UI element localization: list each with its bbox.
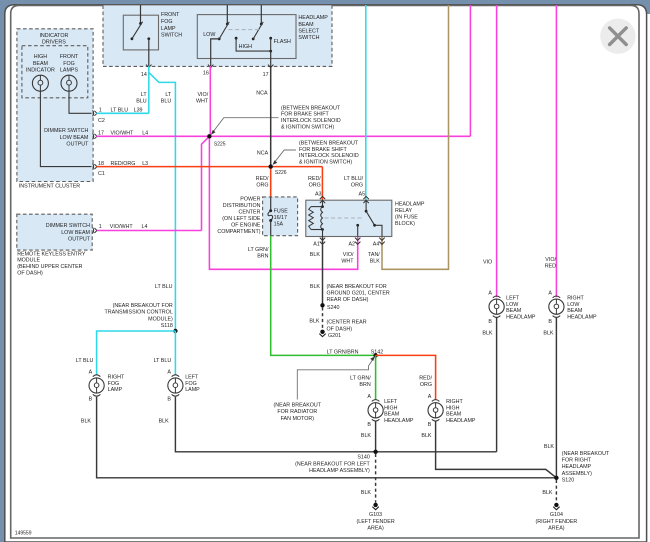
svg-text:HIGH: HIGH	[239, 44, 253, 50]
ground G104	[536, 503, 578, 532]
radiator fan callout text	[274, 403, 322, 422]
svg-text:HEADLAMP: HEADLAMP	[384, 418, 414, 424]
svg-text:FOR BRAKE SHIFT: FOR BRAKE SHIFT	[281, 112, 330, 118]
svg-text:CENTER: CENTER	[239, 210, 261, 216]
relay pin A1	[313, 238, 325, 248]
wire LT BLU L39: cluster pin 1 to pin 14	[97, 112, 149, 114]
svg-text:(NEAR BREAKOUT FOR: (NEAR BREAKOUT FOR	[113, 303, 173, 309]
remote keyless entry module dashed box	[17, 214, 92, 250]
svg-text:A: A	[548, 290, 552, 296]
wire BLK: right fog lamp down and across to S120	[97, 397, 557, 478]
close button	[600, 19, 635, 54]
svg-text:A4: A4	[373, 242, 380, 248]
wire RED/ORG: S226 drop to fuse	[270, 167, 272, 197]
svg-text:RELAY: RELAY	[395, 208, 413, 214]
svg-text:A: A	[367, 394, 371, 400]
label VIO/WHT (pin 16 wire)	[196, 92, 209, 105]
beam select switch second arm	[252, 22, 263, 40]
wire BLK dashed: S240 to G201	[322, 307, 324, 329]
svg-text:C2: C2	[98, 118, 105, 124]
svg-text:(BETWEEN BREAKOUT: (BETWEEN BREAKOUT	[299, 141, 359, 147]
svg-text:A: A	[167, 369, 171, 375]
svg-text:FOG: FOG	[63, 61, 75, 67]
svg-text:RIGHT: RIGHT	[108, 374, 125, 380]
svg-text:VIO: VIO	[483, 259, 492, 265]
svg-text:FOG: FOG	[108, 381, 120, 387]
wire VIO/RED: from top edge to right low beam headlamp	[555, 5, 557, 297]
wire: beam switch feed 1 from top	[226, 5, 228, 24]
svg-text:NCA: NCA	[257, 151, 269, 157]
svg-text:BLK: BLK	[544, 444, 555, 450]
power distribution center caption	[217, 197, 261, 236]
svg-text:RED: RED	[545, 264, 556, 270]
relay pin A3	[315, 191, 325, 203]
svg-text:S225: S225	[214, 141, 226, 147]
svg-text:COMPARTMENT): COMPARTMENT)	[217, 229, 260, 235]
svg-text:FOR BRAKE SHIFT: FOR BRAKE SHIFT	[299, 147, 348, 153]
headlamp relay box	[306, 200, 392, 236]
svg-text:B: B	[428, 422, 432, 428]
wire BLK: left fog lamp down and across to S140 run	[175, 397, 496, 452]
svg-text:FOR RIGHT: FOR RIGHT	[562, 458, 592, 464]
svg-text:A: A	[428, 394, 432, 400]
cluster pin 17	[93, 131, 104, 140]
junction S142 labels	[327, 349, 384, 357]
svg-text:OF DASH): OF DASH)	[327, 326, 353, 332]
wire RED/ORG: S142 across and down to right high beam	[376, 355, 436, 399]
wire RED/ORG L3: cluster pin 18 across	[97, 166, 323, 168]
svg-text:REMOTE KEYLESS ENTRY: REMOTE KEYLESS ENTRY	[17, 251, 86, 257]
svg-text:G103: G103	[369, 512, 382, 518]
svg-text:FOR RADIATOR: FOR RADIATOR	[277, 409, 317, 415]
svg-text:A1: A1	[313, 242, 320, 248]
wire VIO/WHT: S225 down and across to relay A2	[209, 136, 357, 269]
wire LT BLU/ORG: from top edge down to relay A5	[365, 5, 367, 200]
wire LT GRN/BRN: fuse output down to S142	[271, 236, 376, 356]
svg-text:BLK: BLK	[81, 418, 92, 424]
svg-text:S226: S226	[275, 170, 287, 176]
svg-text:HIGH: HIGH	[446, 405, 460, 411]
fog switch internal contacts and arm	[131, 22, 151, 40]
wire BLK dashed: S120 to G104	[555, 480, 557, 503]
wire BLK: right high beam B across to S120	[436, 421, 557, 478]
left low beam headlamp	[488, 290, 536, 325]
junction S118 with callout	[105, 303, 178, 333]
right low beam headlamp	[548, 290, 597, 325]
wire: bracket to pin 17	[270, 51, 272, 66]
svg-text:HEADLAMP: HEADLAMP	[446, 418, 476, 424]
svg-text:BLK: BLK	[310, 284, 321, 290]
svg-text:AREA): AREA)	[367, 526, 384, 532]
svg-text:B: B	[488, 319, 492, 325]
front fog lamp switch box	[123, 12, 182, 50]
svg-text:16/17: 16/17	[274, 215, 287, 221]
svg-text:A3: A3	[315, 191, 322, 197]
svg-text:SWITCH: SWITCH	[298, 35, 319, 41]
svg-text:LAMPS: LAMPS	[60, 67, 79, 73]
svg-text:OUTPUT: OUTPUT	[66, 141, 89, 147]
svg-text:ASSEMBLY): ASSEMBLY)	[562, 471, 592, 477]
svg-text:(BETWEEN BREAKOUT: (BETWEEN BREAKOUT	[281, 105, 341, 111]
radiator fan callout leader	[297, 356, 375, 399]
svg-text:MODULE: MODULE	[17, 258, 40, 264]
wire RED/ORG: drop to relay A3	[321, 167, 323, 200]
svg-text:LEFT: LEFT	[185, 374, 199, 380]
wire LT BLU: pin 14 down to L39 junction	[148, 66, 150, 113]
browser top bar	[0, 0, 650, 14]
relay pin A5	[359, 191, 369, 203]
indicator drivers dashed box	[22, 33, 88, 98]
junction S225	[207, 134, 226, 147]
svg-text:REAR OF DASH): REAR OF DASH)	[327, 297, 369, 303]
label RED/ORG (fuse drop)	[256, 176, 269, 189]
svg-text:FRONT: FRONT	[161, 12, 180, 18]
svg-text:C1: C1	[98, 171, 105, 177]
svg-text:BLU: BLU	[136, 99, 147, 105]
svg-text:B: B	[167, 397, 171, 403]
svg-text:A: A	[488, 290, 492, 296]
svg-text:G201: G201	[328, 333, 341, 339]
svg-text:A5: A5	[359, 191, 366, 197]
S226 callout leader	[273, 150, 296, 165]
ground G103	[356, 503, 394, 532]
svg-text:VIO/: VIO/	[197, 92, 208, 98]
svg-text:RIGHT: RIGHT	[446, 399, 463, 405]
svg-text:LOW BEAM: LOW BEAM	[60, 135, 89, 141]
wire VIO/WHT L4: cluster pin 17 across to right riser	[97, 135, 471, 137]
svg-text:16: 16	[203, 70, 209, 76]
svg-text:BEAM: BEAM	[384, 412, 400, 418]
wire label RED/ORG L3	[111, 161, 149, 167]
wire: beam switch feed 2 from top	[260, 5, 262, 24]
svg-text:FOG: FOG	[161, 19, 173, 25]
wire: fog lamps indicator to pin 1	[69, 91, 92, 113]
svg-text:RED/: RED/	[308, 176, 321, 182]
svg-text:VIO/: VIO/	[545, 257, 556, 263]
wire TAN: riser from top edge	[382, 5, 449, 269]
svg-text:OF ENGINE: OF ENGINE	[231, 223, 261, 229]
junction S140 with callout	[295, 450, 378, 475]
svg-text:WHT: WHT	[341, 259, 354, 265]
label LT BLU (pin 14 wire)	[136, 92, 147, 105]
label RED/ORG (right high beam feed)	[419, 376, 432, 389]
wire: LOW contact elbow to pin 16	[211, 39, 220, 66]
svg-text:HEADLAMP: HEADLAMP	[298, 15, 328, 21]
svg-text:BEAM: BEAM	[446, 412, 462, 418]
svg-text:BLK: BLK	[370, 259, 381, 265]
svg-text:HEADLAMP: HEADLAMP	[506, 315, 536, 321]
svg-text:HIGH: HIGH	[384, 405, 398, 411]
wire VIO/WHT: pin 16 down to S225	[209, 66, 211, 136]
S225 callout leader	[211, 118, 279, 135]
svg-text:BLK: BLK	[310, 252, 321, 258]
svg-text:HEADLAMP ASSEMBLY): HEADLAMP ASSEMBLY)	[309, 468, 370, 474]
svg-text:LOW BEAM: LOW BEAM	[61, 230, 90, 236]
headlamp beam select switch box	[197, 15, 328, 59]
wire label VIO/WHT L4	[111, 131, 149, 137]
svg-text:14: 14	[141, 72, 147, 78]
wire NCA: pin 17 down to S226	[270, 66, 272, 167]
mechanical coupling dashed link	[229, 29, 261, 31]
svg-text:B: B	[548, 319, 552, 325]
svg-text:HEADLAMP: HEADLAMP	[562, 464, 592, 470]
svg-text:TAN/: TAN/	[368, 252, 380, 258]
svg-text:ORG: ORG	[256, 183, 268, 189]
svg-text:BLK: BLK	[482, 330, 493, 336]
fuse 16/17 15A	[268, 197, 288, 236]
svg-text:LEFT: LEFT	[384, 399, 398, 405]
svg-text:BLK: BLK	[361, 433, 372, 439]
svg-text:(BEHIND UPPER CENTER: (BEHIND UPPER CENTER	[17, 264, 82, 270]
svg-text:LT GRN/BRN: LT GRN/BRN	[327, 349, 359, 355]
svg-text:VIO/WHT: VIO/WHT	[110, 224, 134, 230]
svg-text:L4: L4	[142, 224, 148, 230]
front fog lamps indicator	[60, 54, 79, 91]
svg-text:DRIVERS: DRIVERS	[42, 40, 66, 46]
wire LT BLU branch: jog right then long drop to S118	[149, 72, 176, 331]
label VIO/RED (right low beam feed)	[545, 257, 557, 270]
wire BLK: relay A1 down to S240	[322, 237, 324, 306]
svg-text:B: B	[89, 397, 93, 403]
svg-text:INDICATOR: INDICATOR	[39, 33, 68, 39]
svg-text:BEAM: BEAM	[506, 308, 522, 314]
svg-text:BRN: BRN	[257, 254, 268, 260]
wire VIO: from top edge to left low beam headlamp	[496, 5, 498, 297]
svg-text:(NEAR BREAKOUT FOR: (NEAR BREAKOUT FOR	[327, 284, 387, 290]
high beam indicator lamp	[26, 54, 55, 91]
svg-text:(ON LEFT SIDE: (ON LEFT SIDE	[222, 216, 261, 222]
pin 17 arrow	[263, 65, 274, 78]
svg-text:LT BLU: LT BLU	[155, 284, 173, 290]
svg-text:NCA: NCA	[256, 91, 268, 97]
svg-text:LAMP: LAMP	[161, 26, 176, 32]
svg-text:1: 1	[99, 224, 102, 230]
svg-text:(RIGHT FENDER: (RIGHT FENDER	[536, 519, 578, 525]
svg-text:ORG: ORG	[420, 382, 432, 388]
junction S240 and G201 callout	[320, 284, 390, 311]
center rear of dash caption	[327, 320, 367, 333]
relay pin A2	[348, 238, 360, 248]
svg-text:BLU: BLU	[161, 99, 172, 105]
wire VIO/WHT: S225 jog down to keyless feed	[202, 136, 210, 230]
headlamp relay caption	[395, 201, 425, 227]
svg-text:LT: LT	[165, 92, 172, 98]
svg-text:BEAM: BEAM	[567, 308, 583, 314]
svg-text:FRONT: FRONT	[60, 54, 79, 60]
wire BLK: left high beam B to S140	[375, 421, 377, 452]
wire label LT BLU L39	[111, 108, 143, 114]
svg-text:LOW: LOW	[506, 302, 519, 308]
svg-text:(CENTER REAR: (CENTER REAR	[327, 320, 367, 326]
left fog lamp	[167, 369, 200, 402]
wire LT BLU: S118 to left fog lamp	[174, 331, 176, 375]
browser left strip	[0, 0, 5, 542]
svg-text:BLK: BLK	[159, 418, 170, 424]
label VIO/WHT (A2 wire)	[341, 252, 354, 265]
label LT GRN/BRN (left high beam feed)	[350, 376, 371, 389]
beam select switch LOW contact and arm	[203, 22, 229, 40]
svg-text:LOW: LOW	[567, 302, 580, 308]
svg-text:A: A	[89, 369, 93, 375]
junction S120 with callout	[554, 451, 610, 483]
svg-text:& IGNITION SWITCH): & IGNITION SWITCH)	[281, 124, 334, 130]
svg-text:ORG: ORG	[309, 183, 321, 189]
dimmer switch low beam output label (cluster)	[44, 128, 89, 147]
svg-text:BLK: BLK	[543, 330, 554, 336]
svg-text:(NEAR BREAKOUT: (NEAR BREAKOUT	[274, 403, 322, 409]
svg-text:DIMMER SWITCH: DIMMER SWITCH	[46, 223, 90, 229]
HIGH / FLASH contacts bracket	[235, 37, 291, 53]
svg-text:OF DASH): OF DASH)	[17, 270, 43, 276]
wire VIO/WHT: keyless pin 1 horizontal	[97, 230, 202, 232]
svg-text:SWITCH: SWITCH	[161, 33, 182, 39]
svg-text:LT GRN/: LT GRN/	[350, 376, 371, 382]
wire: fog switch output to pin 14	[148, 39, 150, 66]
label LT GRN/BRN (below fuse)	[248, 247, 269, 260]
S225 callout text	[281, 105, 341, 130]
relay coil	[309, 200, 324, 236]
svg-text:BLK: BLK	[309, 318, 320, 324]
ground G201	[319, 330, 341, 340]
instrument cluster dashed box	[17, 29, 93, 190]
svg-text:G104: G104	[550, 512, 563, 518]
svg-text:A2: A2	[348, 242, 355, 248]
svg-text:FLASH: FLASH	[274, 39, 291, 45]
svg-text:S140: S140	[357, 455, 370, 461]
label RED/ORG (A3 drop)	[308, 176, 321, 189]
svg-text:LT BLU: LT BLU	[154, 358, 172, 364]
svg-text:S118: S118	[161, 323, 173, 329]
svg-text:LEFT: LEFT	[506, 295, 520, 301]
label LT BLU/ORG (A5 wire)	[344, 176, 364, 189]
remote keyless entry module caption	[17, 251, 86, 276]
svg-text:FOG: FOG	[185, 381, 197, 387]
cluster pin 1 / C2	[93, 108, 105, 124]
wire BLK dashed: S140 to G103	[375, 454, 377, 503]
svg-text:INSTRUMENT CLUSTER: INSTRUMENT CLUSTER	[19, 183, 81, 189]
svg-text:VIO/: VIO/	[343, 252, 354, 258]
svg-text:FUSE: FUSE	[274, 208, 289, 214]
right fog lamp	[89, 369, 125, 402]
junction S226	[269, 164, 287, 175]
svg-text:HEADLAMP: HEADLAMP	[395, 201, 425, 207]
pin 14 arrow	[141, 65, 152, 78]
relay pin A4	[373, 238, 385, 248]
cluster pin 18 / C1	[93, 161, 105, 177]
wire BLK: right low beam B down to S120	[555, 317, 557, 478]
svg-text:POWER: POWER	[240, 197, 260, 203]
svg-text:RIGHT: RIGHT	[567, 295, 584, 301]
svg-text:BRN: BRN	[359, 382, 370, 388]
svg-text:S120: S120	[562, 477, 575, 483]
svg-text:DIMMER SWITCH: DIMMER SWITCH	[44, 128, 88, 134]
svg-text:DISTRIBUTION: DISTRIBUTION	[223, 203, 261, 209]
svg-text:149559: 149559	[15, 531, 32, 537]
wire: high beam indicator to pin 18	[40, 91, 91, 166]
svg-text:(NEAR BREAKOUT FOR LEFT: (NEAR BREAKOUT FOR LEFT	[295, 461, 370, 467]
svg-text:WHT: WHT	[196, 99, 209, 105]
svg-text:SELECT: SELECT	[298, 28, 320, 34]
relay switch	[356, 200, 382, 236]
switch assembly dashed enclosure (top, blue)	[103, 5, 332, 66]
svg-text:& IGNITION SWITCH): & IGNITION SWITCH)	[299, 160, 352, 166]
svg-text:LOW: LOW	[203, 32, 216, 38]
label TAN/BLK (A4 wire)	[368, 252, 380, 265]
svg-text:15A: 15A	[274, 221, 284, 227]
svg-text:RED/: RED/	[256, 176, 269, 182]
svg-text:INDICATOR: INDICATOR	[26, 67, 55, 73]
svg-text:LAMP: LAMP	[185, 387, 200, 393]
left high beam headlamp	[367, 394, 414, 428]
svg-text:17: 17	[263, 72, 269, 78]
svg-text:BLOCK): BLOCK)	[395, 221, 415, 227]
svg-text:ORG: ORG	[351, 183, 363, 189]
svg-text:BLK: BLK	[542, 490, 553, 496]
svg-text:LT BLU/: LT BLU/	[344, 176, 364, 182]
pin 16 arrow	[203, 65, 214, 77]
svg-text:INTERLOCK SOLENOID: INTERLOCK SOLENOID	[299, 153, 359, 159]
svg-text:TRANSMISSION CONTROL: TRANSMISSION CONTROL	[105, 310, 173, 316]
svg-text:LT BLU: LT BLU	[76, 358, 94, 364]
svg-text:RED/: RED/	[419, 376, 432, 382]
S226 callout text	[299, 141, 359, 166]
wire: fog switch feed from top	[140, 5, 142, 24]
svg-text:BEAM: BEAM	[298, 22, 314, 28]
wire label VIO/WHT L4 (keyless)	[110, 224, 148, 230]
svg-text:BEAM: BEAM	[33, 61, 49, 67]
svg-text:INTERLOCK SOLENOID: INTERLOCK SOLENOID	[281, 118, 341, 124]
wire LT BLU: S118 branch to right fog lamp	[97, 331, 176, 375]
svg-text:(IN FUSE: (IN FUSE	[395, 214, 418, 220]
relay coupling dashed link	[325, 217, 364, 219]
svg-text:BLK: BLK	[361, 490, 372, 496]
wire LT GRN/BRN: S142 down to left high beam	[375, 355, 377, 399]
svg-text:HIGH: HIGH	[34, 54, 48, 60]
svg-text:GROUND G201, CENTER: GROUND G201, CENTER	[327, 291, 390, 297]
svg-text:BLK: BLK	[421, 433, 432, 439]
wire VIO/WHT riser to top edge	[469, 5, 471, 136]
svg-text:LAMP: LAMP	[108, 387, 123, 393]
svg-text:HEADLAMP: HEADLAMP	[567, 315, 597, 321]
svg-text:B: B	[367, 422, 371, 428]
label LT BLU (branch wire)	[161, 92, 172, 105]
keyless pin 1	[93, 224, 102, 233]
svg-text:FAN MOTOR): FAN MOTOR)	[281, 416, 315, 422]
svg-text:(NEAR BREAKOUT: (NEAR BREAKOUT	[562, 451, 610, 457]
svg-text:OUTPUT: OUTPUT	[68, 236, 91, 242]
svg-text:LT: LT	[141, 92, 148, 98]
right high beam headlamp	[428, 394, 476, 428]
power distribution center dashed box	[263, 197, 298, 236]
svg-text:LT GRN/: LT GRN/	[248, 247, 269, 253]
svg-text:S240: S240	[327, 305, 340, 311]
svg-text:(LEFT FENDER: (LEFT FENDER	[356, 519, 394, 525]
wire BLK: left low beam B down to S140 run	[496, 317, 498, 452]
svg-text:AREA): AREA)	[548, 526, 565, 532]
svg-text:MODULE): MODULE)	[148, 316, 173, 322]
